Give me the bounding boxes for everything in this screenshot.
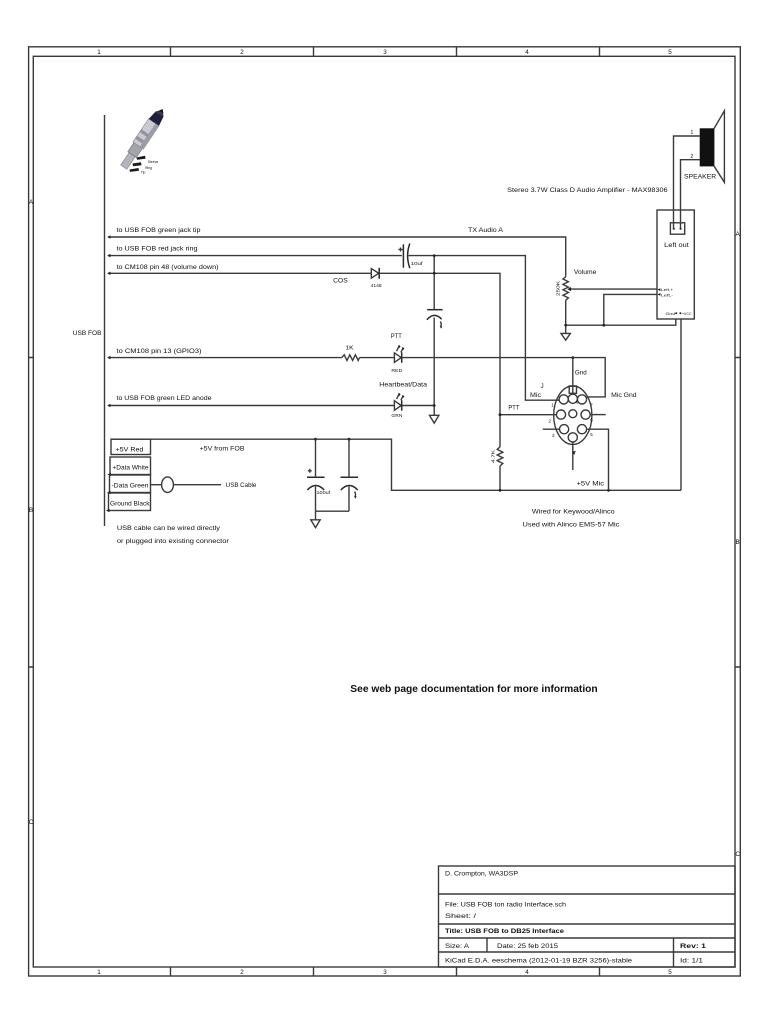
TITLEBLOCK	[439, 866, 736, 967]
titleblock column lines	[487, 938, 674, 967]
junction left- wire	[602, 324, 605, 327]
pin arrow green LED anode	[107, 404, 110, 408]
svg-text:-Data Green: -Data Green	[112, 482, 149, 489]
wire green LED anode	[110, 405, 394, 407]
svg-text:2: 2	[240, 969, 244, 976]
junction PTT gnd	[571, 356, 574, 359]
border left zone letters	[29, 199, 34, 826]
svg-text:Sleeve: Sleeve	[148, 160, 158, 164]
svg-text:+Data White: +Data White	[113, 464, 149, 471]
potentiometer terminal wires	[565, 300, 567, 325]
svg-text:Ring: Ring	[145, 166, 152, 170]
amplifier Gnd pin	[675, 312, 677, 314]
capacitor 1uf	[427, 309, 442, 311]
svg-text:PTT: PTT	[391, 333, 402, 340]
junction 1uf top	[433, 254, 436, 257]
svg-text:1: 1	[97, 969, 101, 976]
svg-text:Gnd: Gnd	[575, 371, 587, 377]
svg-text:5: 5	[668, 969, 672, 976]
wire CM108 pin13 PTT	[110, 357, 342, 359]
mic pin 5	[577, 425, 586, 434]
svg-text:GRN: GRN	[391, 413, 402, 418]
mic pin8 gnd wire	[572, 358, 574, 395]
svg-text:Title: USB FOB to DB25 Interfa: Title: USB FOB to DB25 Interface	[445, 928, 564, 935]
svg-text:USB FOB: USB FOB	[73, 330, 102, 337]
titleblock frame	[439, 866, 736, 967]
border top zone numbers	[97, 49, 672, 56]
svg-text:250K: 250K	[556, 281, 561, 296]
wire PTT to pin2	[500, 414, 556, 416]
mic center pin	[569, 410, 577, 418]
svg-text:RED: RED	[391, 368, 403, 373]
svg-text:Mic: Mic	[530, 393, 541, 399]
svg-text:1: 1	[97, 49, 101, 56]
USB FOB photo	[118, 106, 168, 171]
amplifier Left+ pin	[657, 288, 660, 291]
svg-text:Sheet: /: Sheet: /	[445, 913, 476, 920]
resistor 1K	[342, 355, 360, 361]
capacitor C2	[348, 439, 350, 476]
junction rail 4.7K	[499, 489, 502, 492]
svg-text:J: J	[541, 384, 544, 390]
svg-text:3: 3	[383, 969, 387, 976]
mic connector J1 ellipse	[554, 386, 592, 444]
ground below potentiometer	[561, 325, 570, 340]
svg-text:Ground Black: Ground Black	[110, 500, 150, 507]
mic pin5 wire	[587, 429, 609, 490]
junction pot bottom	[564, 324, 567, 327]
speaker pin2 wire	[681, 160, 701, 229]
svg-text:2: 2	[691, 154, 694, 160]
speaker LS1 body	[700, 129, 714, 166]
svg-text:4: 4	[525, 969, 529, 976]
USB box +5V Red	[111, 439, 151, 454]
amplifier Left- pin	[657, 293, 660, 296]
wire GRN LED to ground	[402, 405, 434, 407]
svg-text:to CM108 pin 48 (volume down): to CM108 pin 48 (volume down)	[117, 264, 219, 271]
amplifier Left out pins	[673, 228, 675, 230]
svg-text:Heartbeat/Data: Heartbeat/Data	[379, 382, 427, 389]
junction GRN wire	[433, 404, 436, 407]
svg-text:File: USB FOB ton radio Interf: File: USB FOB ton radio Interface.sch	[445, 902, 566, 909]
pin arrow red jack ring	[107, 254, 110, 258]
svg-text:to USB FOB red jack ring: to USB FOB red jack ring	[117, 246, 198, 253]
svg-text:4: 4	[525, 49, 529, 56]
USB cable connector circle	[162, 477, 174, 493]
mic pin 8	[568, 394, 577, 403]
svg-text:+5V Mic: +5V Mic	[577, 481, 605, 488]
svg-text:4148: 4148	[371, 283, 383, 288]
border bottom zone numbers	[97, 969, 672, 976]
junction rail cap1	[314, 438, 317, 441]
border bottom ticks	[171, 967, 600, 976]
USB FOB bracket line	[104, 115, 106, 526]
ground arrow below GRN	[430, 415, 439, 423]
potentiometer wiper	[571, 288, 658, 290]
speaker cone	[714, 111, 725, 183]
+5V rail	[111, 439, 681, 490]
junction rail pin5	[607, 489, 610, 492]
wire amp Left-	[604, 294, 657, 325]
junction PTT	[499, 413, 502, 416]
border left ticks	[29, 358, 34, 668]
amplifier Left out box	[670, 223, 684, 234]
USB box +Data White	[110, 457, 151, 475]
svg-text:1K: 1K	[346, 345, 355, 351]
svg-text:Left,+: Left,+	[661, 288, 673, 292]
diode D1 4148	[371, 269, 378, 279]
mic connector notch	[569, 386, 576, 393]
svg-text:to USB FOB green LED anode: to USB FOB green LED anode	[117, 395, 212, 402]
wire volume down to PTT line	[380, 273, 500, 447]
svg-text:8: 8	[576, 401, 578, 405]
border right zone letters	[735, 231, 740, 858]
svg-text:Size: A: Size: A	[445, 943, 470, 950]
mic pin 7	[577, 395, 586, 404]
mic pin 3	[560, 425, 569, 434]
svg-text:Date: 25 feb 2015: Date: 25 feb 2015	[497, 943, 558, 950]
svg-text:Left out: Left out	[664, 243, 689, 249]
mic pin 2	[556, 410, 565, 419]
wire circle to label	[173, 484, 221, 486]
USB FOB photo red labels	[141, 160, 158, 174]
wire amp VCC down	[680, 319, 682, 490]
svg-text:to USB FOB green jack tip: to USB FOB green jack tip	[117, 227, 201, 234]
amplifier VCC pin	[679, 312, 681, 314]
svg-text:Stereo 3.7W Class D Audio Ampl: Stereo 3.7W Class D Audio Amplifier - MA…	[507, 187, 668, 194]
svg-text:PTT: PTT	[508, 405, 519, 412]
svg-text:Rev: 1: Rev: 1	[680, 943, 707, 950]
svg-text:B: B	[29, 507, 33, 514]
wire red jack ring	[110, 255, 402, 257]
pin arrow volume down	[107, 272, 110, 276]
border right ticks	[735, 358, 740, 668]
svg-text:Id: 1/1: Id: 1/1	[680, 958, 703, 965]
wire 1K to LED RED	[359, 357, 394, 359]
wire red jack ring to mic pin1	[408, 256, 559, 401]
capacitor C1 100uf	[315, 439, 317, 476]
wire green jack tip / TX Audio A	[110, 237, 566, 277]
svg-text:KiCad E.D.A. eeschema (2012-0: KiCad E.D.A. eeschema (2012-01-19 BZR 32…	[445, 958, 632, 965]
svg-text:+5V Red: +5V Red	[116, 446, 144, 453]
pin arrow CM108 pin13	[107, 356, 110, 360]
border top ticks	[171, 47, 600, 57]
svg-text:TX Audio A: TX Audio A	[468, 227, 504, 234]
LED D2 RED	[394, 353, 401, 363]
svg-text:Left,-: Left,-	[661, 294, 673, 298]
ground below caps	[311, 511, 320, 527]
mic pin 4	[568, 433, 577, 442]
wire box to circle	[151, 484, 162, 486]
wire amp Gnd to pot	[566, 319, 676, 325]
LED D3 GRN	[394, 401, 401, 411]
svg-text:+5V from FOB: +5V from FOB	[200, 445, 245, 452]
svg-text:10uf: 10uf	[411, 261, 424, 267]
svg-text:3: 3	[383, 49, 387, 56]
svg-text:5: 5	[668, 49, 672, 56]
svg-text:Volume: Volume	[574, 269, 597, 276]
capacitor 10uf	[402, 244, 404, 267]
svg-text:B: B	[735, 539, 739, 546]
wire volume down	[110, 272, 371, 274]
svg-text:Wired for Keywood/Alinco: Wired for Keywood/Alinco	[532, 509, 615, 516]
svg-text:C: C	[29, 819, 34, 826]
USB box -Data Green	[110, 475, 151, 493]
mic pin3 stub	[543, 428, 560, 430]
resistor 4.7K	[497, 447, 503, 466]
mic pin6 stub	[590, 414, 606, 416]
svg-text:USB cable can be wired directl: USB cable can be wired directly	[117, 525, 221, 532]
wire PTT line to mic gnd	[402, 358, 605, 397]
junction 1uf volume-down	[433, 272, 436, 275]
potentiometer Volume 250K	[563, 277, 568, 300]
junction rail cap2	[348, 438, 351, 441]
svg-text:C: C	[735, 851, 740, 858]
svg-text:Tip: Tip	[141, 170, 146, 174]
svg-text:to CM108 pin 13 (GPIO3): to CM108 pin 13 (GPIO3)	[117, 348, 202, 355]
wire caps bottom	[316, 510, 350, 512]
svg-text:or plugged into existing conne: or plugged into existing connector	[117, 538, 229, 545]
svg-text:Mic Gnd: Mic Gnd	[611, 393, 637, 399]
svg-text:SPEAKER: SPEAKER	[684, 173, 717, 180]
svg-text:4.7K: 4.7K	[491, 450, 496, 463]
mic pin number labels	[549, 401, 594, 438]
svg-text:2: 2	[240, 49, 244, 56]
speaker pin1 wire	[674, 136, 701, 229]
mic pin4 arrow	[572, 451, 576, 455]
mic pin4 wire	[572, 442, 574, 470]
USB FOB photo wire arrows	[130, 156, 146, 172]
svg-text:See web page documentation for: See web page documentation for more info…	[350, 684, 597, 695]
pin arrow green jack tip	[107, 235, 110, 239]
titleblock row lines	[439, 894, 736, 952]
svg-text:100uf: 100uf	[317, 490, 331, 496]
amplifier U1 box	[657, 210, 694, 319]
capacitor 1uf branch wire	[433, 256, 435, 416]
mic pin 1	[559, 395, 568, 404]
USB box Ground Black	[109, 493, 151, 511]
svg-text:Gnd: Gnd	[666, 312, 676, 316]
svg-text:COS: COS	[333, 277, 348, 284]
svg-text:+VCC: +VCC	[682, 312, 692, 316]
svg-text:Used with Alinco EMS-57 Mic: Used with Alinco EMS-57 Mic	[523, 522, 620, 529]
svg-text:USB Cable: USB Cable	[226, 482, 257, 489]
svg-text:D. Crompton, WA3DSP: D. Crompton, WA3DSP	[445, 871, 518, 878]
wire 4.7K bottom	[499, 466, 501, 490]
svg-text:1: 1	[691, 130, 694, 136]
mic pin 6	[581, 410, 590, 419]
